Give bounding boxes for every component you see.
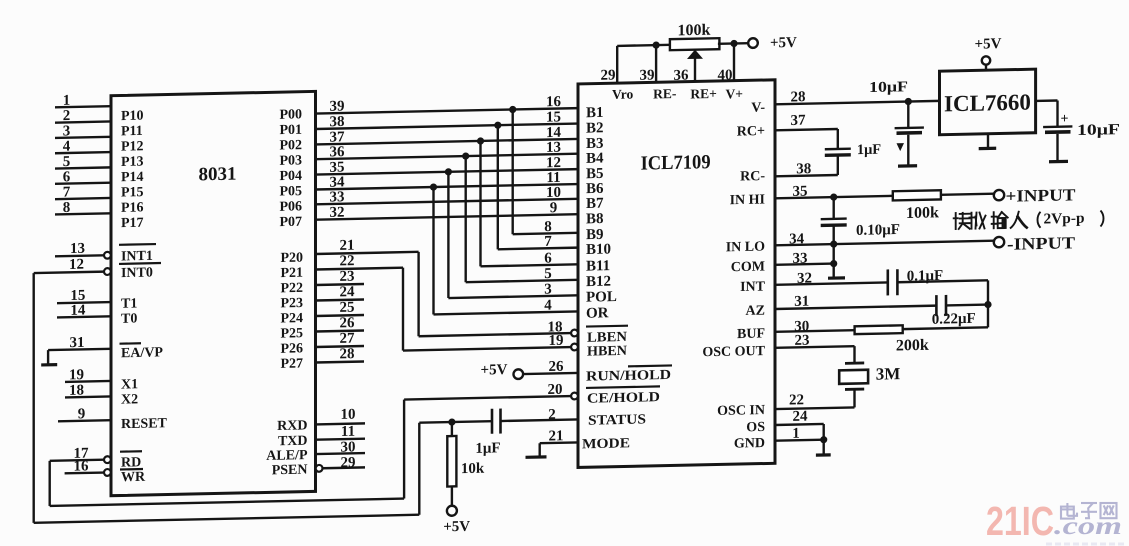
svg-text:X2: X2 xyxy=(121,392,138,407)
svg-text:ICL7109: ICL7109 xyxy=(641,151,711,174)
svg-text:1μF: 1μF xyxy=(475,440,500,457)
svg-text:3: 3 xyxy=(63,123,70,139)
svg-text:10: 10 xyxy=(341,407,356,423)
svg-text:GND: GND xyxy=(734,436,765,452)
svg-text:RXD: RXD xyxy=(277,418,307,434)
svg-text:POL: POL xyxy=(586,289,617,306)
svg-text:25: 25 xyxy=(340,300,355,316)
svg-text:22: 22 xyxy=(340,253,355,269)
svg-text:P04: P04 xyxy=(279,169,302,184)
svg-text:TXD: TXD xyxy=(278,434,308,450)
svg-text:B7: B7 xyxy=(586,196,604,212)
svg-text:EA/VP: EA/VP xyxy=(121,345,163,361)
svg-text:INT: INT xyxy=(740,279,766,295)
svg-text:V-: V- xyxy=(751,101,765,116)
svg-text:35: 35 xyxy=(330,160,345,176)
svg-text:+5V: +5V xyxy=(481,362,508,379)
svg-text:4: 4 xyxy=(63,139,71,155)
svg-text:31: 31 xyxy=(70,335,85,351)
svg-text:P26: P26 xyxy=(280,341,303,356)
svg-text:11: 11 xyxy=(341,424,355,440)
svg-text:IN HI: IN HI xyxy=(730,193,765,209)
svg-text:9: 9 xyxy=(550,200,557,216)
svg-text:0.1μF: 0.1μF xyxy=(907,268,943,285)
svg-text:P05: P05 xyxy=(279,184,302,199)
svg-text:RUN/HOLD: RUN/HOLD xyxy=(586,368,671,385)
svg-text:15: 15 xyxy=(546,109,561,125)
svg-text:IN LO: IN LO xyxy=(726,240,765,256)
svg-text:40: 40 xyxy=(718,67,733,83)
svg-text:100k: 100k xyxy=(906,204,939,222)
svg-text:33: 33 xyxy=(330,189,345,205)
svg-text:24: 24 xyxy=(340,284,355,300)
svg-text:P15: P15 xyxy=(121,185,144,200)
svg-text:10μF: 10μF xyxy=(869,79,908,96)
svg-text:21IC: 21IC xyxy=(986,498,1054,544)
svg-text:3: 3 xyxy=(544,281,551,297)
svg-text:B1: B1 xyxy=(586,105,604,121)
svg-text:+INPUT: +INPUT xyxy=(1006,185,1077,205)
svg-text:P27: P27 xyxy=(280,356,303,371)
svg-text:12: 12 xyxy=(546,155,561,171)
svg-text:26: 26 xyxy=(340,315,355,331)
svg-text:200k: 200k xyxy=(896,337,929,355)
svg-text:12: 12 xyxy=(69,257,84,273)
svg-text:P17: P17 xyxy=(121,216,144,231)
svg-text:P24: P24 xyxy=(280,311,303,326)
svg-text:B5: B5 xyxy=(586,166,604,182)
svg-text:2: 2 xyxy=(63,108,70,124)
svg-text:AZ: AZ xyxy=(746,304,765,319)
svg-text:10k: 10k xyxy=(461,461,485,477)
svg-text:13: 13 xyxy=(546,140,561,156)
svg-text:P25: P25 xyxy=(280,326,303,341)
svg-text:P21: P21 xyxy=(280,266,303,281)
svg-text:10μF: 10μF xyxy=(1077,121,1120,139)
svg-text:X1: X1 xyxy=(121,377,138,392)
svg-text:HBEN: HBEN xyxy=(587,344,627,360)
svg-text:24: 24 xyxy=(793,409,808,425)
svg-text:WR: WR xyxy=(121,470,146,486)
svg-text:32: 32 xyxy=(330,205,345,221)
svg-text:16: 16 xyxy=(74,458,89,474)
svg-text:P02: P02 xyxy=(279,138,302,153)
svg-text:23: 23 xyxy=(340,269,355,285)
svg-text:26: 26 xyxy=(549,359,564,375)
svg-text:18: 18 xyxy=(69,383,84,399)
svg-text:T1: T1 xyxy=(121,296,137,311)
svg-text:RE+: RE+ xyxy=(690,86,716,102)
svg-text:21: 21 xyxy=(340,238,355,254)
svg-text:P13: P13 xyxy=(121,155,144,170)
svg-text:COM: COM xyxy=(731,260,765,276)
svg-text:P23: P23 xyxy=(280,296,303,311)
svg-text:+5V: +5V xyxy=(770,35,797,52)
svg-text:RESET: RESET xyxy=(121,416,168,432)
svg-text:+5V: +5V xyxy=(975,36,1002,53)
svg-text:B12: B12 xyxy=(586,274,611,291)
svg-text:P06: P06 xyxy=(279,199,302,214)
svg-text:7: 7 xyxy=(544,234,552,250)
svg-text:P10: P10 xyxy=(121,109,144,124)
svg-text:Vro: Vro xyxy=(612,86,633,101)
svg-text:ALE/P: ALE/P xyxy=(266,448,308,464)
svg-text:19: 19 xyxy=(69,367,84,383)
svg-text:P16: P16 xyxy=(121,200,144,215)
svg-text:B10: B10 xyxy=(586,241,611,258)
svg-text:1: 1 xyxy=(63,93,70,109)
svg-text:8: 8 xyxy=(544,219,551,235)
svg-text:OS: OS xyxy=(746,420,765,435)
svg-text:2Vp-p: 2Vp-p xyxy=(1043,211,1084,228)
svg-text:OR: OR xyxy=(586,305,609,321)
svg-text:1μF: 1μF xyxy=(857,142,881,159)
svg-text:14: 14 xyxy=(70,303,85,319)
svg-text:PSEN: PSEN xyxy=(272,463,308,479)
svg-text:16: 16 xyxy=(546,94,561,110)
svg-text:100k: 100k xyxy=(678,22,711,40)
svg-text:B2: B2 xyxy=(586,120,604,136)
svg-text:BUF: BUF xyxy=(737,327,765,343)
svg-text:+: + xyxy=(1061,112,1069,127)
svg-text:MODE: MODE xyxy=(582,436,630,452)
svg-text:13: 13 xyxy=(70,241,85,257)
svg-text:P03: P03 xyxy=(279,153,302,168)
svg-text:22: 22 xyxy=(789,392,804,408)
svg-text:4: 4 xyxy=(544,298,552,314)
svg-text:P22: P22 xyxy=(280,281,303,296)
svg-text:27: 27 xyxy=(340,331,355,347)
svg-text:ICL7660: ICL7660 xyxy=(944,90,1031,117)
svg-text:V+: V+ xyxy=(726,86,743,101)
svg-text:29: 29 xyxy=(601,67,616,83)
svg-text:8031: 8031 xyxy=(199,164,237,186)
svg-text:B8: B8 xyxy=(586,211,604,227)
svg-text:B4: B4 xyxy=(586,150,604,166)
svg-text:P12: P12 xyxy=(121,139,144,154)
svg-text:37: 37 xyxy=(791,113,806,129)
svg-text:.com: .com xyxy=(1054,513,1122,540)
svg-text:INT1: INT1 xyxy=(121,249,153,265)
svg-text:36: 36 xyxy=(330,144,345,160)
svg-text:6: 6 xyxy=(544,250,552,266)
svg-text:RE-: RE- xyxy=(653,86,676,101)
svg-text:RC+: RC+ xyxy=(737,124,765,140)
svg-text:+5V: +5V xyxy=(443,519,470,536)
svg-text:29: 29 xyxy=(341,455,356,471)
svg-text:8: 8 xyxy=(63,200,70,216)
svg-text:0.10μF: 0.10μF xyxy=(856,222,900,239)
svg-text:OSC IN: OSC IN xyxy=(717,403,765,419)
svg-text:3M: 3M xyxy=(876,364,901,384)
svg-text:INT0: INT0 xyxy=(121,266,153,282)
svg-text:CE/HOLD: CE/HOLD xyxy=(587,390,660,407)
svg-text:9: 9 xyxy=(78,406,85,422)
svg-text:OSC OUT: OSC OUT xyxy=(702,344,765,360)
svg-text:6: 6 xyxy=(63,169,71,185)
svg-text:P11: P11 xyxy=(121,124,143,139)
svg-text:P20: P20 xyxy=(280,251,303,266)
svg-text:STATUS: STATUS xyxy=(588,412,646,428)
svg-text:28: 28 xyxy=(340,346,355,362)
svg-text:B11: B11 xyxy=(586,258,610,275)
svg-text:T0: T0 xyxy=(121,312,137,327)
svg-text:-INPUT: -INPUT xyxy=(1007,233,1076,253)
svg-text:20: 20 xyxy=(548,382,563,398)
svg-text:19: 19 xyxy=(549,333,564,349)
svg-text:39: 39 xyxy=(330,99,345,115)
svg-text:P00: P00 xyxy=(279,107,302,122)
svg-text:5: 5 xyxy=(544,266,551,282)
svg-text:21: 21 xyxy=(549,428,564,444)
svg-text:38: 38 xyxy=(330,114,345,130)
svg-text:0.22μF: 0.22μF xyxy=(932,311,976,328)
svg-text:P14: P14 xyxy=(121,170,144,185)
svg-text:P01: P01 xyxy=(279,123,302,138)
svg-text:7: 7 xyxy=(63,185,71,201)
svg-text:30: 30 xyxy=(341,439,356,455)
svg-text:39: 39 xyxy=(640,67,655,83)
svg-text:5: 5 xyxy=(63,154,70,170)
svg-text:10: 10 xyxy=(546,185,561,201)
svg-text:P07: P07 xyxy=(279,215,302,230)
svg-text:RC-: RC- xyxy=(740,169,765,185)
svg-text:36: 36 xyxy=(674,68,689,84)
